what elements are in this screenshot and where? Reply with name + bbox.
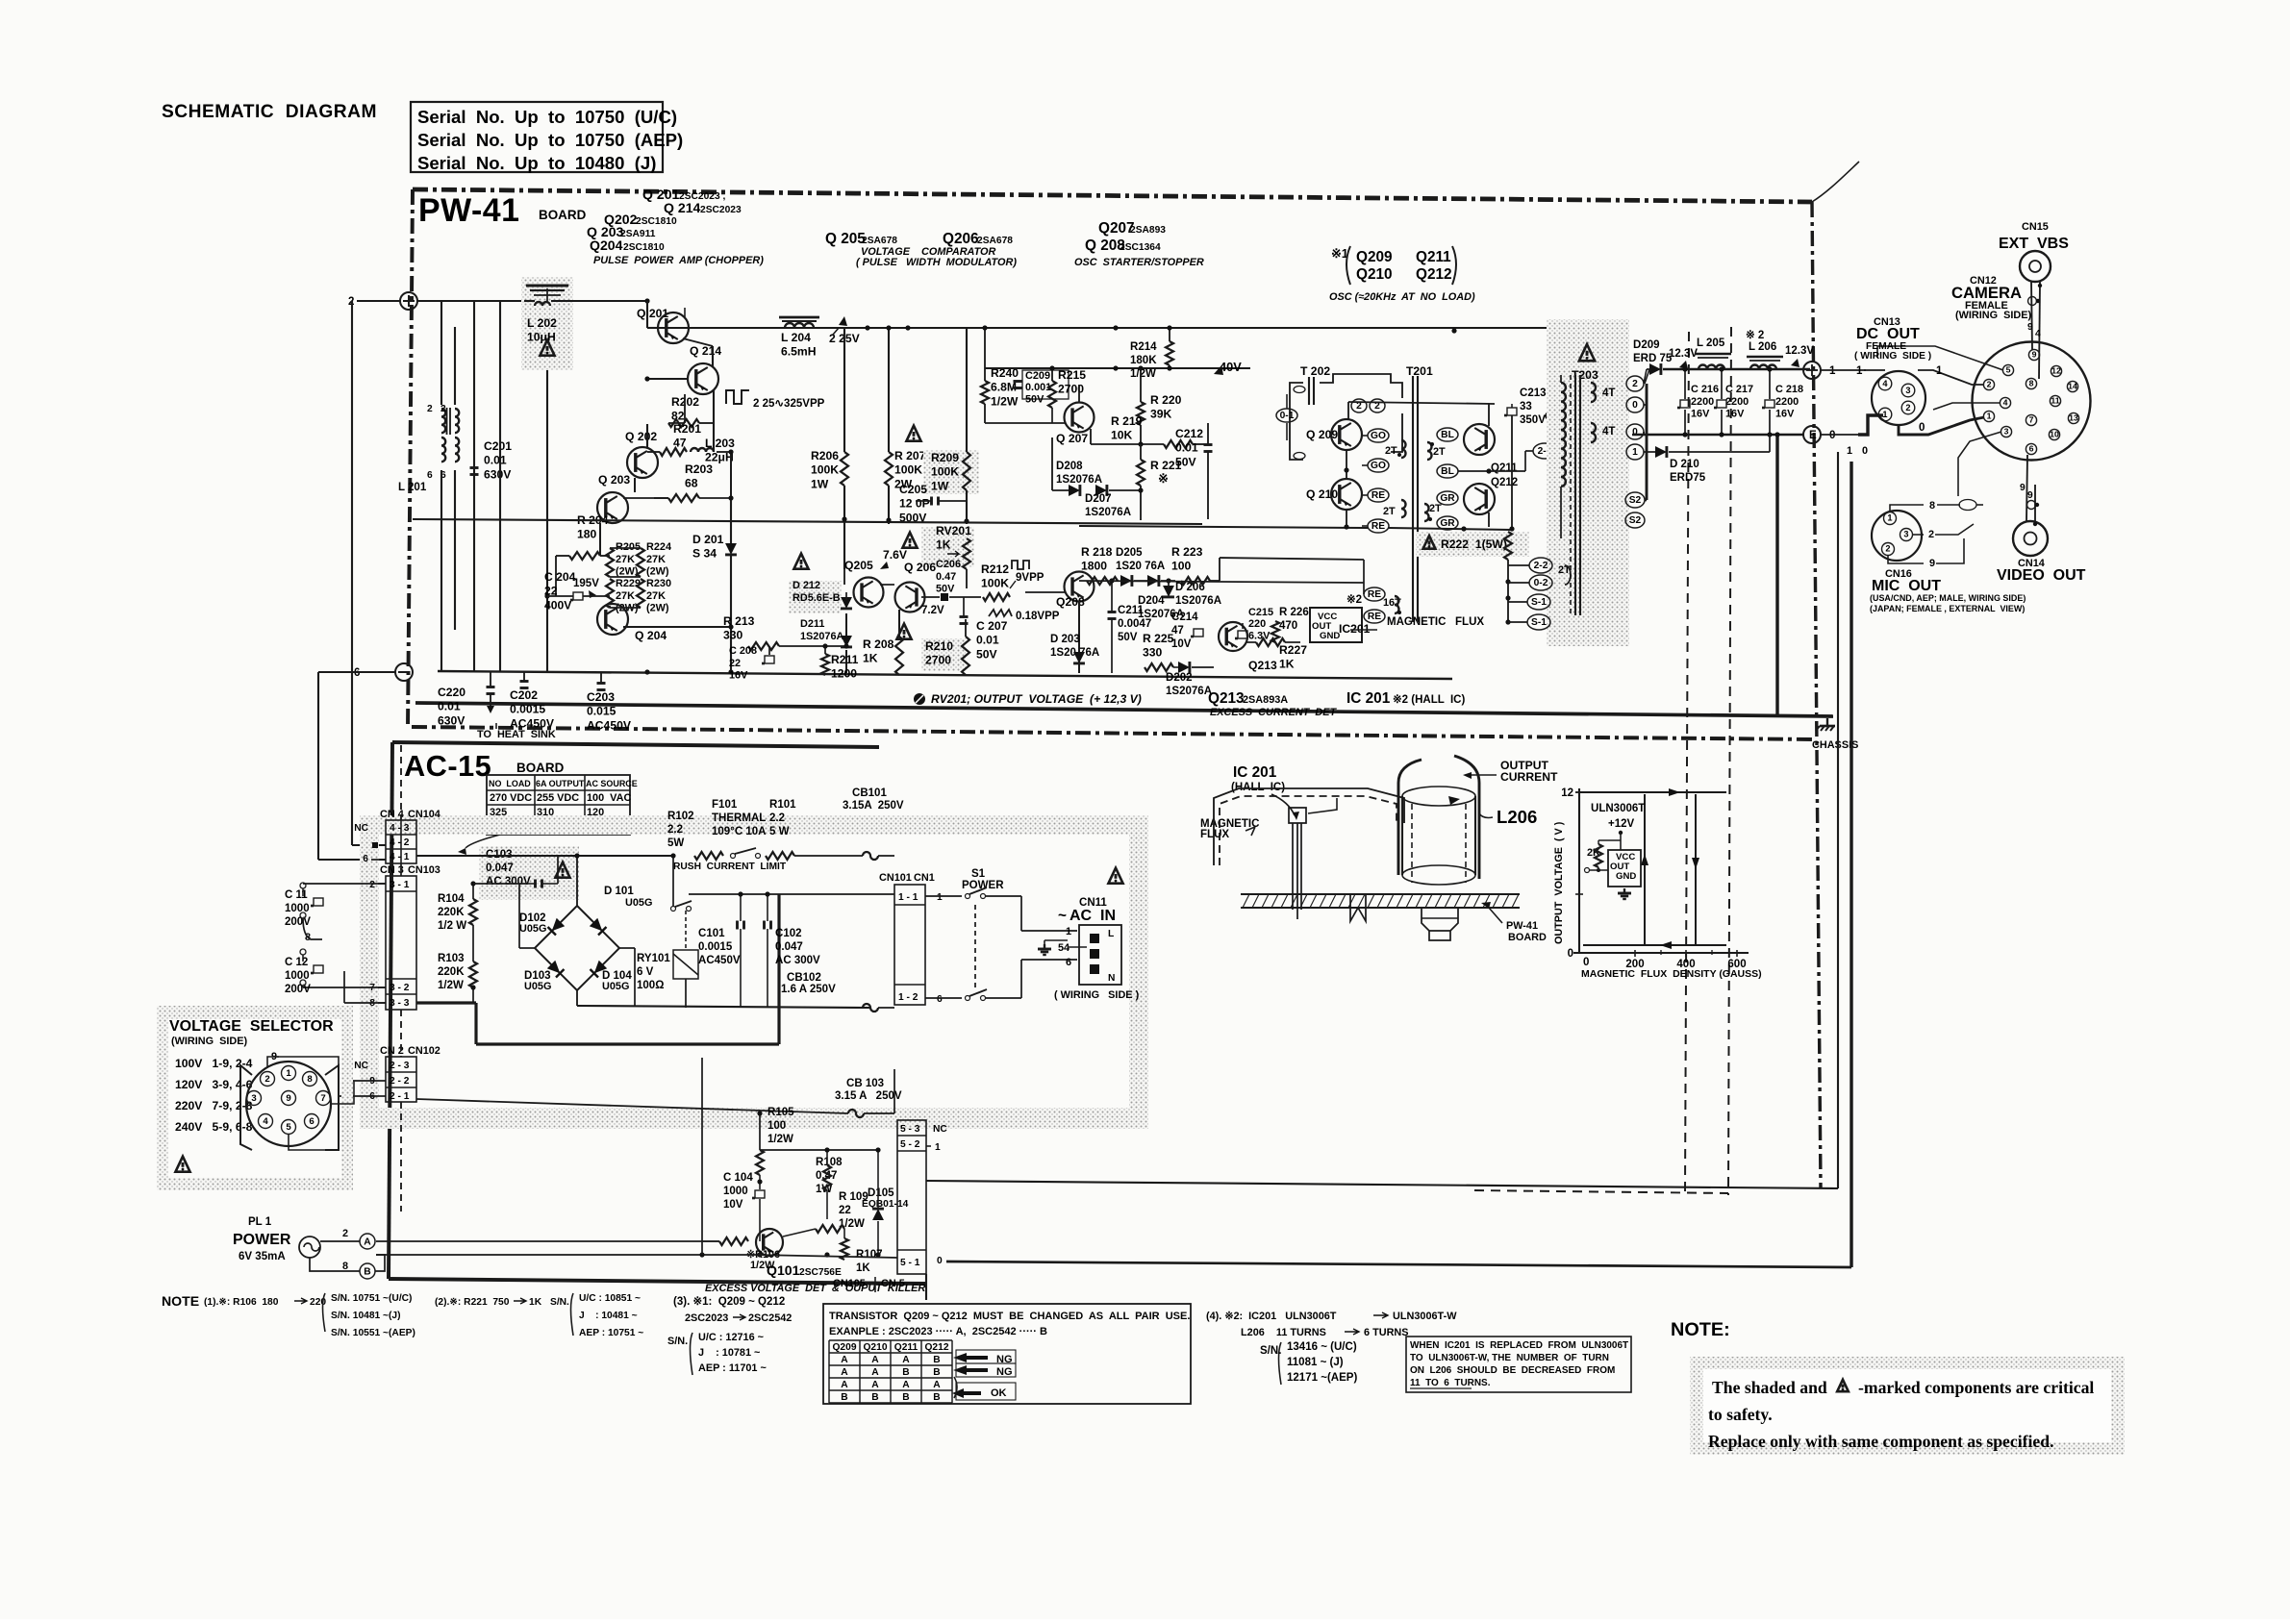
svg-text:TRANSISTOR Q209 ~ Q212 MUST: TRANSISTOR Q209 ~ Q212 MUST BE CHANGED A…: [829, 1311, 1190, 1322]
svg-text:2T: 2T: [1385, 445, 1397, 457]
svg-text:R201: R201: [673, 422, 701, 436]
svg-text:R 208: R 208: [863, 637, 894, 651]
svg-text:※1: ※1: [1331, 246, 1348, 261]
coil mount nut: [1422, 908, 1458, 931]
svg-text:1: 1: [1066, 926, 1071, 937]
svg-text:A: A: [841, 1367, 848, 1378]
svg-text:RUSH CURRENT LIMIT: RUSH CURRENT LIMIT: [673, 862, 787, 872]
terminal + on PW-41 edge: [400, 292, 417, 310]
long rail RE row: [1079, 526, 1368, 528]
svg-text:-marked components are critica: -marked components are critical: [1858, 1378, 2094, 1397]
oval GR pair: [1437, 491, 1458, 505]
svg-text:2200: 2200: [1725, 396, 1749, 408]
svg-text:OK: OK: [991, 1387, 1007, 1399]
bottom label RV201 output voltage: [914, 693, 925, 705]
svg-text:4: 4: [2035, 329, 2041, 339]
svg-text:BOARD: BOARD: [1508, 932, 1547, 943]
svg-text:CN101: CN101: [879, 872, 912, 884]
svg-text:R215: R215: [1058, 368, 1086, 382]
svg-text:Q206: Q206: [943, 231, 979, 247]
svg-text:2SC2023: 2SC2023: [685, 1312, 728, 1324]
svg-text:1S2076A: 1S2076A: [1085, 507, 1132, 518]
svg-text:0.015: 0.015: [587, 705, 617, 718]
svg-text:L 205: L 205: [1697, 337, 1725, 349]
svg-text:C205: C205: [899, 483, 927, 496]
T202 secondary loop: [1320, 374, 1402, 452]
ground symbol AC IN: [1044, 944, 1045, 949]
svg-text:Q207: Q207: [1098, 220, 1135, 237]
capacitor C209 0.001 50V: [1022, 370, 1069, 399]
T203 core lines: [1574, 375, 1576, 615]
wires Q209 Q210 emitters: [1346, 450, 1347, 479]
svg-text:10V: 10V: [1171, 638, 1192, 650]
svg-text:1: 1: [1632, 447, 1638, 458]
lower AC rail: [577, 1006, 870, 1008]
svg-text:1200: 1200: [831, 667, 857, 681]
svg-text:AEP : 11701 ~: AEP : 11701 ~: [698, 1362, 767, 1374]
svg-text:S-1: S-1: [1531, 597, 1547, 608]
svg-text:6.8M: 6.8M: [991, 381, 1017, 394]
svg-text:100K: 100K: [931, 465, 959, 479]
svg-text:1: 1: [1829, 365, 1836, 377]
bridge connections: [576, 856, 578, 906]
diode D210 ERD75: [1655, 446, 1667, 458]
svg-text:0.47: 0.47: [816, 1170, 837, 1182]
wires selector to CN2: [331, 1081, 354, 1104]
NG OK arrows: [953, 1353, 988, 1362]
svg-text:22: 22: [729, 658, 741, 669]
PW-41 board outline bottom dash-dot border: [412, 727, 1816, 739]
svg-text:Q 203: Q 203: [598, 473, 630, 487]
svg-text:C 104: C 104: [723, 1172, 753, 1184]
svg-text:0.0015: 0.0015: [510, 703, 545, 716]
svg-text:2SA678: 2SA678: [862, 236, 897, 246]
svg-text:EXCESS CURRENT DET: EXCESS CURRENT DET: [1210, 707, 1337, 718]
svg-text:※2: ※2: [1346, 593, 1362, 606]
svg-text:3 - 1: 3 - 1: [390, 880, 410, 890]
shaded box R209: [923, 450, 979, 494]
svg-text:2: 2: [1987, 380, 1992, 389]
inductor L202 10uH: [526, 285, 568, 287]
svg-text:T201: T201: [1406, 364, 1433, 378]
warning triangle AC IN: [1108, 868, 1122, 884]
ground rail PW-41: [438, 671, 1452, 679]
svg-text:+12V: +12V: [1608, 818, 1635, 830]
graph axes output voltage vs flux: [1578, 788, 1580, 953]
svg-text:AC-15: AC-15: [404, 749, 491, 783]
heavy chassis wire bottom of PW-41: [415, 703, 1833, 716]
svg-text:9: 9: [2032, 350, 2037, 360]
wire 6 from - to left: [360, 671, 395, 673]
svg-text:RV201; OUTPUT VOLTAGE (+ 12,: RV201; OUTPUT VOLTAGE (+ 12,3 V): [931, 692, 1142, 706]
svg-text:2 25∿325VPP: 2 25∿325VPP: [753, 398, 825, 410]
AC-15 board outline: [392, 742, 879, 747]
svg-text:C202: C202: [510, 688, 538, 702]
svg-text:6V 35mA: 6V 35mA: [239, 1251, 286, 1262]
svg-text:D208: D208: [1056, 461, 1083, 472]
svg-text:~: ~: [1058, 908, 1067, 924]
svg-text:27K: 27K: [616, 554, 635, 565]
svg-text:Q212: Q212: [1491, 477, 1518, 488]
terminal + DC out: [1803, 362, 1821, 379]
transistor Q208: [1065, 572, 1095, 602]
svg-text:Q213: Q213: [1208, 690, 1245, 707]
flux loop dashed: [1220, 796, 1397, 865]
PW-41 board outline right border: [1812, 202, 1821, 1187]
svg-text:2200: 2200: [1775, 396, 1799, 408]
transformer L201: [441, 409, 445, 433]
svg-text:12: 12: [1561, 787, 1573, 799]
svg-text:270 VDC: 270 VDC: [490, 792, 532, 804]
svg-text:27K: 27K: [646, 590, 666, 602]
svg-text:4: 4: [263, 1116, 268, 1127]
vertical L202 column down to ground rail: [546, 370, 548, 671]
svg-text:BL: BL: [1441, 466, 1454, 477]
svg-text:2: 2: [440, 404, 446, 414]
svg-text:ULN3006T-W: ULN3006T-W: [1393, 1311, 1457, 1322]
svg-text:R227: R227: [1279, 643, 1307, 657]
svg-text:Q213: Q213: [1248, 659, 1277, 672]
svg-text:100K: 100K: [981, 577, 1009, 590]
svg-text:L206 11 TURNS: L206 11 TURNS: [1241, 1327, 1326, 1338]
svg-text:200V: 200V: [285, 916, 311, 928]
svg-text:CN 4: CN 4: [380, 809, 404, 820]
R222 bottom junction vertical: [1507, 560, 1509, 622]
svg-text:S/N. 10481 ~(J): S/N. 10481 ~(J): [331, 1311, 401, 1321]
svg-text:PULSE POWER AMP (CHOPPER): PULSE POWER AMP (CHOPPER): [593, 255, 764, 266]
svg-text:R 226: R 226: [1279, 607, 1309, 618]
svg-text:A: A: [933, 1380, 941, 1390]
svg-text:Q 214: Q 214: [664, 200, 701, 215]
PW-41 board top-right corner flourish: [1812, 162, 1859, 202]
shaded band T203: [1547, 319, 1629, 646]
svg-text:D209: D209: [1633, 339, 1660, 351]
svg-text:Q209: Q209: [832, 1342, 856, 1353]
svg-text:GR: GR: [1440, 493, 1455, 504]
svg-text:A: A: [871, 1355, 879, 1365]
svg-text:12: 12: [2051, 366, 2061, 376]
svg-text:1 - 2: 1 - 2: [898, 992, 919, 1003]
svg-text:B: B: [364, 1267, 370, 1278]
svg-text:L 203: L 203: [705, 437, 735, 450]
IC201 hall IC box: [1310, 608, 1362, 642]
svg-text:11: 11: [2051, 396, 2059, 406]
svg-text:R 223: R 223: [1171, 545, 1203, 559]
svg-text:D 210: D 210: [1670, 459, 1699, 470]
svg-text:POWER: POWER: [233, 1232, 291, 1248]
svg-text:13: 13: [2069, 413, 2078, 423]
svg-text:1: 1: [286, 1068, 291, 1079]
svg-text:R209: R209: [931, 451, 959, 464]
svg-text:R205: R205: [616, 541, 641, 553]
svg-text:6A OUTPUT: 6A OUTPUT: [536, 779, 585, 788]
svg-text:0.047: 0.047: [486, 862, 514, 874]
svg-text:L 201: L 201: [398, 482, 427, 493]
svg-text:Q209: Q209: [1356, 249, 1393, 265]
svg-text:330: 330: [1143, 646, 1163, 660]
svg-text:1K: 1K: [856, 1262, 870, 1274]
svg-text:R206: R206: [811, 449, 839, 462]
transformer T202 core: [1308, 377, 1310, 405]
svg-text:D 212: D 212: [793, 580, 820, 591]
shaded safety box around L202: [521, 277, 573, 370]
svg-text:S/N. 10751 ~(U/C): S/N. 10751 ~(U/C): [331, 1293, 412, 1304]
svg-text:Replace only with same compone: Replace only with same component as spec…: [1708, 1432, 2053, 1451]
svg-text:50V: 50V: [936, 584, 955, 595]
svg-text:C212: C212: [1175, 427, 1203, 440]
svg-text:R212: R212: [981, 562, 1009, 576]
svg-text:R214: R214: [1130, 341, 1157, 353]
svg-text:L 204: L 204: [781, 331, 811, 344]
svg-text:195V: 195V: [573, 578, 599, 589]
svg-text:1S2076A: 1S2076A: [1175, 595, 1222, 607]
svg-text:5W: 5W: [667, 837, 684, 849]
svg-text:※2 (HALL IC): ※2 (HALL IC): [1393, 693, 1465, 706]
svg-text:A: A: [871, 1380, 879, 1390]
svg-text:9: 9: [1929, 558, 1935, 569]
RE rail junction to R222 area: [1389, 528, 1512, 530]
svg-text:2 - 1: 2 - 1: [390, 1091, 410, 1102]
oval 0-1: [1276, 409, 1297, 422]
svg-text:8: 8: [1929, 500, 1935, 512]
svg-text:CN104: CN104: [408, 809, 440, 820]
svg-text:(4). ※2: IC201 ULN3006T: (4). ※2: IC201 ULN3006T: [1206, 1311, 1337, 1322]
svg-text:1/2W: 1/2W: [1130, 368, 1156, 380]
oval terminal 1: [1626, 444, 1644, 460]
voltage selector shaded frame: [157, 1006, 353, 1019]
hysteresis loop: [1579, 792, 1726, 945]
pair table grid: [829, 1339, 952, 1341]
svg-text:16V: 16V: [729, 670, 748, 682]
svg-text:(WIRING SIDE): (WIRING SIDE): [171, 1036, 248, 1047]
transistor Q212: [1464, 484, 1495, 514]
svg-text:6: 6: [2029, 444, 2034, 454]
wire + rail to L202: [417, 300, 524, 302]
svg-text:1800: 1800: [1081, 560, 1107, 573]
svg-text:470: 470: [1279, 620, 1297, 632]
svg-text:RV201: RV201: [936, 524, 971, 537]
svg-text:RD5.6E-B: RD5.6E-B: [793, 592, 841, 604]
rail from R223 to RE16T: [1220, 558, 1364, 560]
svg-text:27K: 27K: [646, 554, 666, 565]
svg-text:CN15: CN15: [2022, 221, 2049, 233]
svg-text:Q210: Q210: [863, 1342, 887, 1353]
AC-15 voltage table: [487, 775, 630, 835]
svg-text:2: 2: [1928, 529, 1934, 540]
svg-text:50V: 50V: [1025, 393, 1044, 405]
svg-text:1000: 1000: [285, 903, 310, 914]
svg-text:B: B: [871, 1392, 878, 1403]
svg-text:33: 33: [1520, 401, 1532, 412]
svg-text:PW-41: PW-41: [418, 192, 519, 229]
svg-text:6: 6: [427, 470, 433, 481]
wires into CN2 from selector: [346, 1080, 378, 1082]
svg-text:Q208: Q208: [1056, 595, 1085, 609]
svg-text:EXT VBS: EXT VBS: [1999, 236, 2069, 252]
svg-text:EXANPLE : 2SC2023 ····· A, 2S: EXANPLE : 2SC2023 ····· A, 2SC2542 ·····…: [829, 1326, 1047, 1337]
svg-text:NG: NG: [996, 1366, 1013, 1378]
dashed cable boundary around L206: [1685, 332, 1689, 1192]
svg-text:40V: 40V: [1220, 360, 1242, 374]
camera pins: [2002, 364, 2013, 375]
terminal - on PW-41 edge: [395, 663, 413, 681]
svg-text:F101: F101: [712, 799, 738, 811]
svg-text:0.0047: 0.0047: [1118, 618, 1151, 630]
svg-text:S1: S1: [971, 868, 986, 880]
svg-text:CB 103: CB 103: [846, 1078, 884, 1089]
svg-text:630V: 630V: [438, 713, 466, 727]
svg-text:1: 1: [937, 892, 943, 903]
svg-text:(JAPAN; FEMALE , EXTERNAL VIE: (JAPAN; FEMALE , EXTERNAL VIEW): [1870, 604, 2025, 613]
svg-text:C 207: C 207: [976, 619, 1008, 633]
warning triangle C103: [555, 862, 569, 878]
svg-text:7.2V: 7.2V: [921, 605, 944, 616]
wire 0 terminals to E rail: [1643, 432, 1645, 435]
svg-text:2.2: 2.2: [769, 812, 785, 824]
svg-text:ERD75: ERD75: [1670, 472, 1706, 484]
svg-text:J : 10781 ~: J : 10781 ~: [698, 1347, 760, 1359]
svg-text:7.6V: 7.6V: [883, 548, 908, 562]
wire vertical column x=520: [499, 301, 501, 671]
connector CN16 MIC OUT: [1872, 511, 1922, 561]
svg-text:1: 1: [1882, 410, 1887, 419]
svg-text:1S2076A: 1S2076A: [800, 631, 843, 642]
PW-41 board outline top border: [413, 189, 1812, 202]
svg-text:1W: 1W: [811, 477, 829, 490]
svg-text:8: 8: [307, 1074, 313, 1085]
svg-text:C 216: C 216: [1691, 384, 1719, 395]
svg-text:U/C : 10851 ~: U/C : 10851 ~: [579, 1293, 641, 1304]
ground return rail: [1682, 432, 1687, 437]
svg-text:A: A: [364, 1237, 371, 1248]
svg-text:5 - 1: 5 - 1: [900, 1258, 920, 1268]
svg-text:U05G: U05G: [625, 897, 652, 909]
svg-text:IC 201: IC 201: [1346, 690, 1391, 707]
svg-text:3.15A 250V: 3.15A 250V: [843, 800, 904, 812]
oval RE pair upper: [1368, 488, 1389, 502]
transistor Q204: [597, 604, 628, 635]
svg-text:0.01: 0.01: [438, 700, 461, 713]
svg-text:0.18VPP: 0.18VPP: [1016, 611, 1060, 622]
svg-text:5 - 3: 5 - 3: [900, 1124, 920, 1135]
svg-text:( WIRING SIDE ): ( WIRING SIDE ): [1054, 989, 1140, 1001]
svg-text:R 220: R 220: [1150, 393, 1182, 407]
transistor Q213: [1219, 622, 1247, 651]
svg-text:2: 2: [1632, 379, 1638, 389]
svg-text:11 TO 6 TURNS.: 11 TO 6 TURNS.: [1410, 1378, 1491, 1388]
warning triangle T203: [1579, 344, 1595, 361]
svg-text:0: 0: [1632, 427, 1638, 437]
svg-text:2SC1364: 2SC1364: [1120, 242, 1161, 253]
svg-text:180: 180: [577, 528, 597, 541]
shaded strip R222: [1416, 532, 1529, 557]
svg-text:R104: R104: [438, 893, 465, 905]
svg-text:GR: GR: [1440, 518, 1455, 529]
svg-text:12.3V: 12.3V: [1669, 348, 1698, 360]
svg-text:R224: R224: [646, 541, 671, 553]
svg-text:R203: R203: [685, 462, 713, 476]
wire DC OUT pin1 vertical: [1837, 452, 1839, 1188]
shaded box RV201: [921, 527, 974, 567]
svg-text:2 - 3: 2 - 3: [390, 1061, 410, 1071]
svg-text:D 101: D 101: [604, 886, 634, 897]
L201 top feeds: [440, 301, 442, 405]
svg-text:Q211: Q211: [1491, 462, 1518, 474]
svg-text:6: 6: [309, 1116, 314, 1127]
svg-text:FLUX: FLUX: [1200, 829, 1229, 840]
svg-text:100: 100: [768, 1120, 786, 1132]
inductor L203 22uH: [691, 448, 714, 452]
svg-text:10: 10: [2050, 430, 2059, 439]
svg-text:B: B: [933, 1355, 940, 1365]
svg-text:3 - 2: 3 - 2: [390, 983, 410, 993]
warning triangle R222: [1423, 536, 1436, 549]
shaded box C103: [479, 846, 579, 900]
mid rail 538: [413, 519, 1202, 524]
hall sensor bracket: [1271, 794, 1295, 815]
wires camera to left frame: [1877, 346, 2003, 370]
svg-text:PW-41: PW-41: [1506, 920, 1538, 932]
svg-text:180K: 180K: [1130, 355, 1157, 366]
oval terminal 0b: [1626, 424, 1644, 439]
svg-text:(2W): (2W): [646, 566, 669, 578]
warning triangle RV201: [902, 533, 917, 548]
svg-text:R 207: R 207: [894, 449, 926, 462]
svg-text:2SC2023: 2SC2023: [700, 205, 742, 215]
svg-text:100K: 100K: [811, 463, 839, 477]
wires MIC OUT to camera: [1890, 505, 1924, 512]
svg-text:E: E: [1809, 430, 1817, 441]
svg-text:220: 220: [1248, 618, 1266, 630]
svg-text:S/N. 10551 ~(AEP): S/N. 10551 ~(AEP): [331, 1328, 415, 1338]
svg-text:Q210: Q210: [1356, 266, 1393, 283]
svg-text:3.15 A 250V: 3.15 A 250V: [835, 1090, 902, 1102]
svg-text:9: 9: [286, 1093, 290, 1104]
warning triangle selector: [175, 1157, 189, 1172]
svg-text:2 - 2: 2 - 2: [390, 1076, 410, 1087]
svg-text:3: 3: [1903, 530, 1908, 539]
svg-text:1: 1: [1856, 365, 1863, 377]
svg-text:J : 10481 ~: J : 10481 ~: [579, 1311, 638, 1321]
svg-text:4 - 1: 4 - 1: [390, 852, 410, 862]
svg-text:2SC1810: 2SC1810: [623, 242, 665, 253]
svg-text:12171 ~(AEP): 12171 ~(AEP): [1287, 1372, 1357, 1384]
svg-text:50V: 50V: [976, 647, 998, 661]
svg-text:A: A: [871, 1367, 879, 1378]
svg-text:C201: C201: [484, 439, 512, 453]
svg-text:The shaded and: The shaded and: [1712, 1378, 1827, 1397]
svg-text:(HALL IC): (HALL IC): [1231, 782, 1285, 793]
svg-text:S 34: S 34: [692, 547, 717, 561]
svg-text:2: 2: [427, 404, 433, 414]
svg-text:5: 5: [286, 1122, 291, 1133]
svg-text:0: 0: [1919, 422, 1925, 434]
svg-text:255 VDC: 255 VDC: [537, 792, 579, 804]
IC201 replacement box: [1406, 1337, 1631, 1392]
svg-text:2.2: 2.2: [667, 824, 683, 836]
svg-text:2200: 2200: [1691, 396, 1714, 408]
wire DC OUT pin0 vertical heavy: [1850, 462, 1852, 1267]
svg-text:VIDEO OUT: VIDEO OUT: [1997, 567, 2086, 584]
svg-text:R101: R101: [769, 799, 796, 811]
svg-text:68: 68: [685, 477, 698, 490]
svg-text:2SC2542: 2SC2542: [748, 1312, 792, 1324]
L206 winding wire: [1398, 760, 1422, 875]
svg-text:C215: C215: [1248, 607, 1273, 618]
transistor Q207: [1065, 403, 1095, 433]
svg-text:Q 206: Q 206: [904, 561, 936, 574]
svg-text:R105: R105: [768, 1107, 794, 1118]
